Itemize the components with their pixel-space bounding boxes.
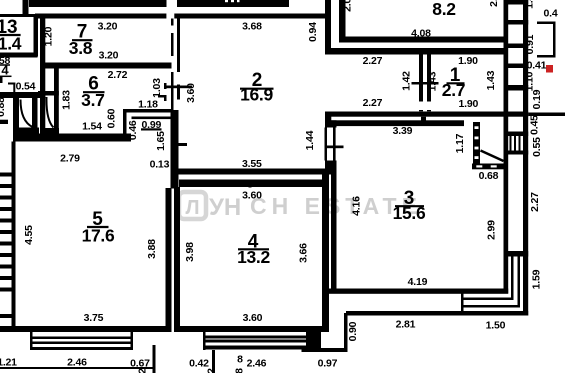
svg-text:3.20: 3.20: [99, 50, 119, 62]
svg-text:4.19: 4.19: [408, 276, 428, 288]
svg-text:17.6: 17.6: [82, 226, 115, 246]
svg-text:0.4: 0.4: [544, 8, 558, 20]
svg-text:1.59: 1.59: [531, 269, 543, 289]
svg-text:4.55: 4.55: [23, 225, 35, 245]
svg-text:0.13: 0.13: [150, 159, 170, 171]
svg-text:1.50: 1.50: [486, 320, 506, 332]
svg-text:3.39: 3.39: [393, 125, 413, 137]
svg-text:2.46: 2.46: [67, 357, 87, 369]
svg-text:8.2: 8.2: [432, 0, 456, 19]
svg-text:8: 8: [234, 368, 246, 373]
svg-text:1.43: 1.43: [427, 71, 439, 91]
svg-text:0.67: 0.67: [130, 358, 150, 370]
svg-text:3.98: 3.98: [184, 242, 196, 262]
svg-text:1.42: 1.42: [401, 71, 413, 91]
svg-text:1.17: 1.17: [454, 133, 466, 153]
svg-text:2.79: 2.79: [60, 153, 80, 165]
svg-text:0.42: 0.42: [189, 358, 209, 370]
svg-text:3.60: 3.60: [242, 190, 262, 202]
svg-text:УН: УН: [209, 194, 241, 221]
svg-text:3.60: 3.60: [185, 83, 197, 103]
svg-text:2.27: 2.27: [529, 192, 541, 212]
svg-text:1.44: 1.44: [304, 130, 316, 150]
svg-text:4.08: 4.08: [411, 27, 431, 39]
svg-text:2.27: 2.27: [363, 55, 383, 67]
svg-text:1.10: 1.10: [524, 71, 536, 91]
svg-text:3.66: 3.66: [298, 243, 310, 263]
svg-text:0.99: 0.99: [141, 119, 161, 131]
svg-text:3.55: 3.55: [242, 158, 262, 170]
svg-text:2.27: 2.27: [363, 97, 383, 109]
svg-text:3.75: 3.75: [84, 312, 104, 324]
svg-text:0.91: 0.91: [524, 34, 536, 54]
svg-text:4.16: 4.16: [351, 196, 363, 216]
svg-text:1.65: 1.65: [155, 131, 167, 151]
svg-text:2.05: 2.05: [342, 0, 354, 12]
svg-text:0.68: 0.68: [479, 170, 499, 182]
svg-text:0.97: 0.97: [318, 358, 338, 370]
svg-text:0.19: 0.19: [531, 89, 543, 109]
svg-text:16.9: 16.9: [240, 85, 273, 105]
svg-text:2.05: 2.05: [488, 0, 500, 7]
svg-text:2.72: 2.72: [108, 69, 128, 81]
svg-text:8: 8: [237, 354, 243, 366]
svg-text:1.90: 1.90: [458, 55, 478, 67]
svg-text:4: 4: [1, 63, 9, 78]
svg-text:2.81: 2.81: [396, 319, 416, 331]
svg-text:0.94: 0.94: [307, 22, 319, 42]
svg-text:1.40: 1.40: [524, 0, 536, 9]
svg-text:1.21: 1.21: [0, 357, 17, 369]
svg-text:0.88: 0.88: [0, 97, 7, 117]
svg-text:1.18: 1.18: [138, 99, 158, 111]
svg-text:0.46: 0.46: [127, 120, 139, 140]
svg-text:2.99: 2.99: [486, 220, 498, 240]
svg-text:1.90: 1.90: [458, 98, 478, 110]
svg-text:3.88: 3.88: [146, 239, 158, 259]
svg-text:1.83: 1.83: [60, 90, 72, 110]
svg-text:1.54: 1.54: [82, 121, 102, 133]
svg-text:3.20: 3.20: [98, 21, 118, 33]
svg-text:2: 2: [137, 368, 149, 373]
svg-text:1.43: 1.43: [485, 70, 497, 90]
svg-text:0.60: 0.60: [106, 108, 118, 128]
svg-text:1.4: 1.4: [0, 34, 22, 54]
svg-text:Л: Л: [185, 197, 199, 219]
svg-text:0.41: 0.41: [527, 60, 547, 72]
svg-text:0.90: 0.90: [347, 321, 359, 341]
svg-text:2: 2: [206, 368, 218, 373]
svg-text:0.45: 0.45: [529, 115, 541, 135]
svg-text:1.20: 1.20: [43, 26, 55, 46]
svg-text:3.60: 3.60: [243, 312, 263, 324]
svg-text:2.46: 2.46: [247, 358, 267, 370]
svg-text:3.68: 3.68: [242, 21, 262, 33]
svg-text:1.03: 1.03: [151, 78, 163, 98]
svg-text:0.54: 0.54: [16, 81, 36, 93]
svg-text:0.55: 0.55: [531, 137, 543, 157]
